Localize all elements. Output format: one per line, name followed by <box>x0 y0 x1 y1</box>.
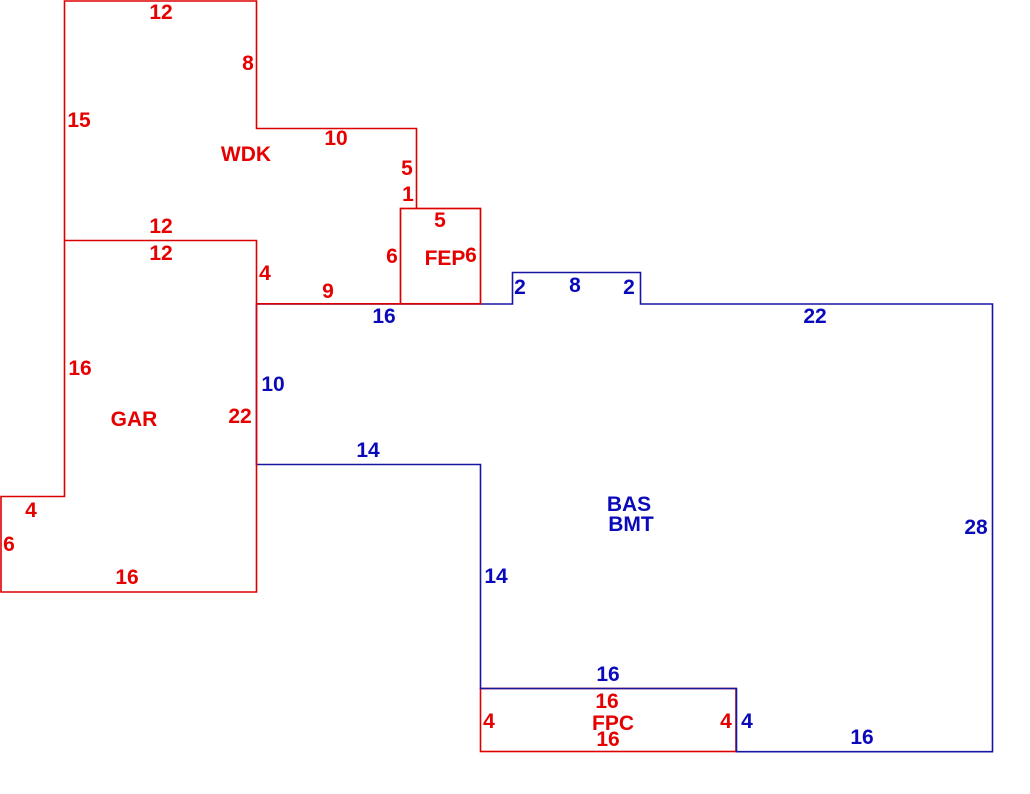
svg-text:12: 12 <box>149 1 172 24</box>
svg-text:10: 10 <box>261 373 284 396</box>
svg-text:9: 9 <box>322 280 334 303</box>
porch FPC outline (red, drawn first so blue overlaps its top/right) <box>481 689 737 752</box>
basement BAS/BMT outline (blue polygon) <box>257 273 993 752</box>
wire red line 9 segment <box>257 303 401 305</box>
svg-text:28: 28 <box>964 516 988 539</box>
svg-text:16: 16 <box>115 566 138 589</box>
svg-text:16: 16 <box>68 357 91 380</box>
svg-text:WDK: WDK <box>221 143 271 166</box>
svg-text:1: 1 <box>402 183 414 206</box>
svg-text:22: 22 <box>228 405 251 428</box>
svg-text:BMT: BMT <box>608 513 654 536</box>
svg-text:GAR: GAR <box>111 408 158 431</box>
svg-text:2: 2 <box>623 276 635 299</box>
svg-text:4: 4 <box>259 262 271 285</box>
svg-text:14: 14 <box>356 439 380 462</box>
svg-text:15: 15 <box>67 109 91 132</box>
svg-text:22: 22 <box>803 305 826 328</box>
svg-text:16: 16 <box>372 305 395 328</box>
svg-text:FEP: FEP <box>425 247 466 270</box>
svg-text:14: 14 <box>484 565 508 588</box>
svg-text:5: 5 <box>401 157 413 180</box>
svg-text:6: 6 <box>386 245 398 268</box>
svg-text:8: 8 <box>242 52 254 75</box>
svg-text:12: 12 <box>149 242 172 265</box>
svg-text:2: 2 <box>514 276 526 299</box>
wood deck WDK outline (red polyline) <box>65 1 417 241</box>
svg-text:16: 16 <box>850 726 873 749</box>
svg-text:5: 5 <box>434 209 446 232</box>
svg-text:8: 8 <box>569 274 581 297</box>
svg-text:12: 12 <box>149 215 172 238</box>
garage GAR outline (red polygon) <box>1 241 257 593</box>
svg-text:16: 16 <box>596 663 619 686</box>
svg-text:16: 16 <box>596 728 619 751</box>
svg-text:4: 4 <box>483 710 495 733</box>
svg-text:16: 16 <box>595 690 618 713</box>
svg-text:10: 10 <box>324 127 347 150</box>
svg-text:4: 4 <box>741 710 753 733</box>
svg-text:6: 6 <box>465 244 477 267</box>
svg-text:4: 4 <box>25 499 37 522</box>
svg-text:6: 6 <box>3 533 15 556</box>
svg-text:4: 4 <box>720 710 732 733</box>
porch FEP outline (red rect) <box>401 209 481 304</box>
